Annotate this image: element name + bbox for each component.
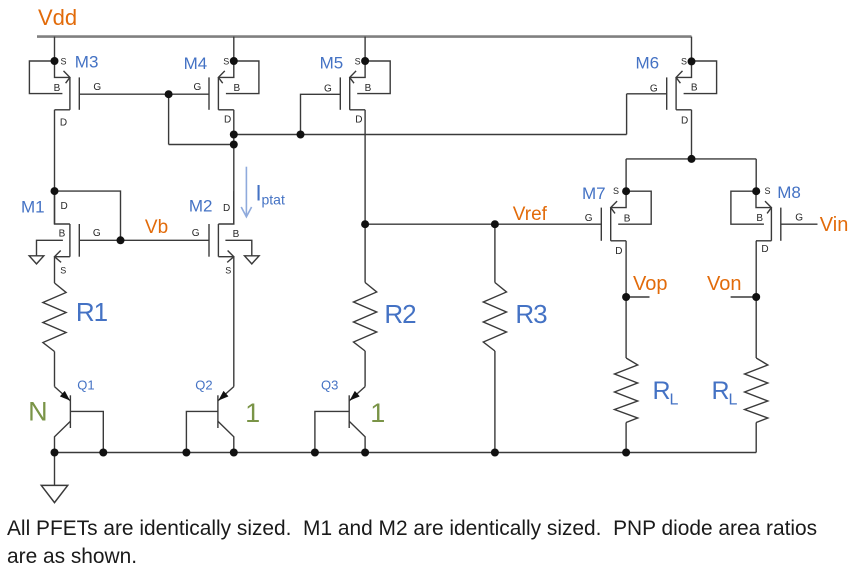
svg-text:Vop: Vop (633, 273, 667, 295)
svg-text:S: S (225, 266, 231, 276)
svg-text:S: S (681, 56, 687, 66)
svg-text:D: D (60, 117, 67, 128)
svg-text:R3: R3 (515, 299, 547, 329)
svg-text:M5: M5 (320, 54, 344, 73)
svg-text:S: S (355, 56, 361, 66)
svg-text:Vdd: Vdd (38, 5, 77, 30)
svg-text:G: G (650, 84, 658, 95)
svg-text:B: B (365, 83, 372, 94)
svg-text:G: G (93, 82, 101, 93)
svg-text:1: 1 (245, 398, 260, 428)
svg-text:D: D (224, 114, 231, 125)
svg-text:R: R (653, 377, 671, 405)
svg-text:B: B (54, 83, 61, 94)
svg-text:S: S (613, 186, 619, 196)
svg-text:G: G (194, 82, 202, 93)
svg-text:1: 1 (370, 398, 385, 428)
svg-text:M8: M8 (777, 183, 801, 202)
svg-text:G: G (93, 228, 101, 239)
svg-text:D: D (355, 114, 362, 125)
svg-text:R1: R1 (76, 297, 108, 327)
svg-text:M2: M2 (189, 196, 213, 215)
svg-text:M6: M6 (636, 54, 660, 73)
svg-text:B: B (756, 213, 763, 224)
svg-text:D: D (615, 246, 622, 257)
svg-text:S: S (764, 186, 770, 196)
svg-text:D: D (681, 115, 688, 126)
svg-text:M3: M3 (75, 53, 99, 72)
svg-text:G: G (192, 228, 200, 239)
svg-text:B: B (624, 213, 631, 224)
svg-text:S: S (60, 56, 66, 66)
svg-text:N: N (28, 397, 47, 427)
svg-text:Q3: Q3 (321, 378, 338, 393)
svg-text:Vin: Vin (820, 214, 849, 236)
svg-text:Q2: Q2 (195, 378, 212, 393)
svg-text:D: D (60, 201, 67, 212)
svg-text:B: B (691, 83, 698, 94)
svg-text:R: R (712, 377, 730, 405)
svg-text:M7: M7 (582, 184, 606, 203)
svg-text:M4: M4 (184, 54, 208, 73)
svg-text:B: B (233, 83, 240, 94)
svg-text:L: L (729, 392, 738, 409)
svg-text:B: B (233, 229, 240, 240)
svg-text:Q1: Q1 (77, 378, 94, 393)
svg-text:ptat: ptat (262, 192, 285, 208)
svg-text:Vb: Vb (145, 217, 168, 238)
svg-text:G: G (795, 212, 803, 223)
svg-text:M1: M1 (21, 198, 45, 217)
svg-text:D: D (761, 244, 768, 255)
svg-text:Von: Von (707, 273, 741, 295)
svg-text:S: S (223, 56, 229, 66)
svg-text:G: G (324, 83, 332, 94)
svg-text:B: B (59, 229, 66, 240)
svg-text:S: S (60, 266, 66, 276)
svg-text:R2: R2 (384, 299, 416, 329)
svg-text:L: L (670, 392, 679, 409)
svg-text:D: D (223, 203, 230, 214)
svg-text:G: G (585, 213, 593, 224)
svg-text:Vref: Vref (513, 204, 548, 225)
